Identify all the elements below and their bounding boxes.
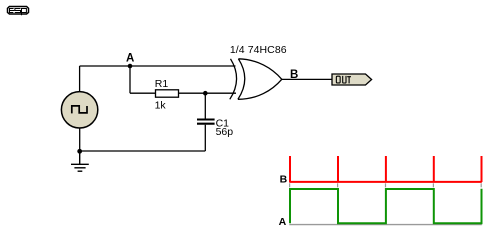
ground [71,151,89,171]
resistor R1 [156,90,179,97]
svg-text:56p: 56p [216,126,234,138]
svg-text:A: A [126,53,134,65]
node A junction [128,64,133,69]
wire resistor to gate input 2 [179,92,237,94]
waveform trace A green [290,189,482,223]
svg-text:B: B [280,174,288,186]
waveform trace B red [289,156,482,182]
wire bottom horizontal [80,150,206,152]
ground junction node [77,149,82,154]
OUT text [336,76,351,83]
wire A down [129,66,131,93]
wire C1 down [204,125,206,151]
wire source top to corner [79,66,81,92]
esp logo [8,7,29,16]
wire source bottom [79,128,81,152]
wire top horizontal to gate input 1 [80,65,236,67]
svg-text:1/4 74HC86: 1/4 74HC86 [230,44,287,56]
square-wave source V1 [61,92,97,128]
junction node R1/C1 [203,91,208,96]
XOR gate U1 1/4 74HC86 [230,59,282,100]
gray tick marks [290,183,482,187]
wire to resistor [130,92,156,94]
capacitor C1 [197,120,215,124]
svg-text:A: A [279,216,287,228]
svg-text:1k: 1k [155,100,167,112]
waveform gray axis [289,224,482,226]
OUT terminal flag [332,74,372,85]
svg-text:R1: R1 [155,78,169,90]
wire gate output to OUT [282,78,332,80]
wire junction down to C1 [204,93,206,118]
